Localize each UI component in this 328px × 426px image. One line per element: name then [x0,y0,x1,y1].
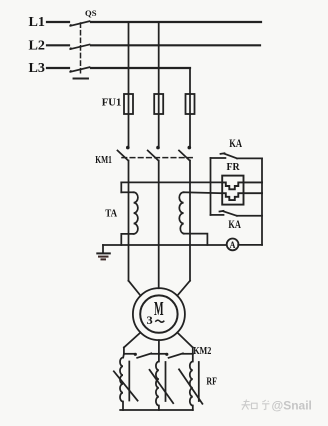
relay KA bottom contact blade [223,211,237,216]
current transformer TA1 bottom jog [121,234,133,245]
svg-text:KM2: KM2 [193,346,211,357]
motor lead top-left slant [129,281,141,296]
resistor RF element 3 wavy body [190,354,193,410]
fuse FU1 pole 1 [124,94,133,114]
fuse FU1 pole 3 [186,94,195,114]
wire secondary common line [103,244,226,246]
fuse FU1 pole 3 wire through [189,94,191,146]
fuse FU1 pole 2 wire through [158,94,160,146]
relay KA bottom contact blade tick [220,210,224,213]
current transformer TA2 bottom lead to common [184,234,208,245]
resistor RF element 1 lead [122,354,125,358]
svg-text:L1: L1 [29,14,46,29]
relay KA top contact blade [224,154,237,159]
ground stem [102,245,104,253]
wire right loop vertical [261,158,263,245]
svg-text:FU1: FU1 [102,96,122,108]
svg-text:KA: KA [229,136,242,150]
thermal relay FR box [222,176,243,205]
relay KA top contact right wire [237,157,262,159]
svg-text:KM1: KM1 [95,155,112,166]
svg-text:QS: QS [85,8,97,18]
motor lead bottom-mid [158,340,160,354]
thermal relay FR lower heater element [222,193,262,200]
wire L3 right segment with corner down [91,67,190,69]
fuse FU1 pole 2 [154,94,163,114]
wire vertical phase 1 upper [128,22,130,94]
wire vertical phase 3 lower [189,161,191,281]
contactor KM1 linkage dashed line [122,157,193,159]
contactor KM1 pole 3 contact dot [188,146,192,150]
switch QS linkage dashed line [80,23,82,76]
resistor RF element 2 wavy body [156,354,159,410]
contactor KM1 pole 2 contact dot [156,146,160,150]
contactor KM2 contact 1 blade [137,353,151,357]
switch QS pole 3 blade [70,67,89,72]
wire rotor bottom bus [120,409,193,411]
svg-text:@Snail: @Snail [272,399,312,413]
contactor KM2 right lead [192,348,194,354]
contactor KM1 pole 1 contact dot [126,146,130,150]
svg-text:M: M [154,298,164,320]
current transformer TA2 coil [179,192,183,233]
motor lead bottom-right slant [177,333,193,348]
current transformer TA1 coil [134,192,138,234]
resistor RF element 2 slash [150,370,174,403]
contactor KM2 contact 2 dot [165,353,168,356]
switch QS pole 2 blade [70,45,89,50]
relay KA bottom contact right wire [237,215,262,217]
svg-text:RF: RF [206,375,217,387]
wire vertical phase 2 lower [158,161,160,289]
contactor KM2 contact 1 dot [134,353,137,356]
contactor KM2 contact 1 left wire [124,353,134,355]
motor M inner circle [140,295,177,332]
contactor KM2 left lead [123,348,125,354]
resistor RF element 1 bar [128,362,130,401]
switch QS pole 1 blade [70,21,89,26]
switch QS linkage end bar [74,78,89,80]
motor lead bottom-left slant [124,333,141,348]
resistor RF element 1 wavy body [120,358,123,411]
motor tilde [156,320,164,322]
ammeter A circle [227,239,239,251]
relay KA top contact blade tick [221,152,225,155]
wire L1 right segment [91,21,261,23]
wire left loop vertical [210,158,212,215]
wire L2 left segment [47,44,69,46]
wire vertical phase 2 upper [158,22,160,94]
ground bar 1 [97,252,110,254]
svg-text:TA: TA [105,209,117,220]
svg-text:3: 3 [147,313,153,327]
wire vertical phase 1 lower [128,161,130,281]
wire TA2 secondary to FR lower heater [184,191,223,194]
ground bar 3 [102,258,106,260]
svg-text:FR: FR [227,161,241,173]
contactor KM2 contact 1 right wire [151,353,159,355]
svg-text:L2: L2 [29,37,46,52]
resistor RF element 1 slash [114,371,138,400]
relay KA top contact left wire [211,157,226,159]
svg-text:L3: L3 [29,60,46,75]
wire ammeter right to loop [238,244,262,246]
contactor KM1 pole 2 blade [148,151,159,161]
wire L1 left segment [47,21,69,23]
wire L3 left segment [47,67,69,69]
wire TA1 secondary to FR upper heater [121,181,222,183]
motor lead top-right slant [177,281,190,296]
current transformer TA1 top jog to coil [121,191,133,193]
wire vertical phase 3 upper [189,68,191,94]
resistor RF element 2 bar [165,362,167,401]
contactor KM2 contact 2 left wire [159,353,166,355]
contactor KM1 pole 1 blade [118,151,129,161]
current transformer TA1 secondary top lead [120,182,122,192]
motor M outer circle [133,288,185,340]
relay KA bottom contact left wire [211,214,224,216]
watermark zhihu glyphs [242,400,270,410]
fuse FU1 pole 1 wire through [128,94,130,146]
svg-text:KA: KA [228,217,241,231]
ground bar 2 [99,256,108,258]
contactor KM1 pole 3 blade [179,151,190,161]
wire L2 right segment [91,44,260,46]
resistor RF element 3 bar [198,362,200,401]
svg-text:A: A [230,241,236,251]
contactor KM2 contact 2 blade [169,353,183,357]
contactor KM2 contact 2 right wire [183,353,193,355]
resistor RF element 3 slash [179,369,202,404]
thermal relay FR upper heater element [222,182,262,189]
